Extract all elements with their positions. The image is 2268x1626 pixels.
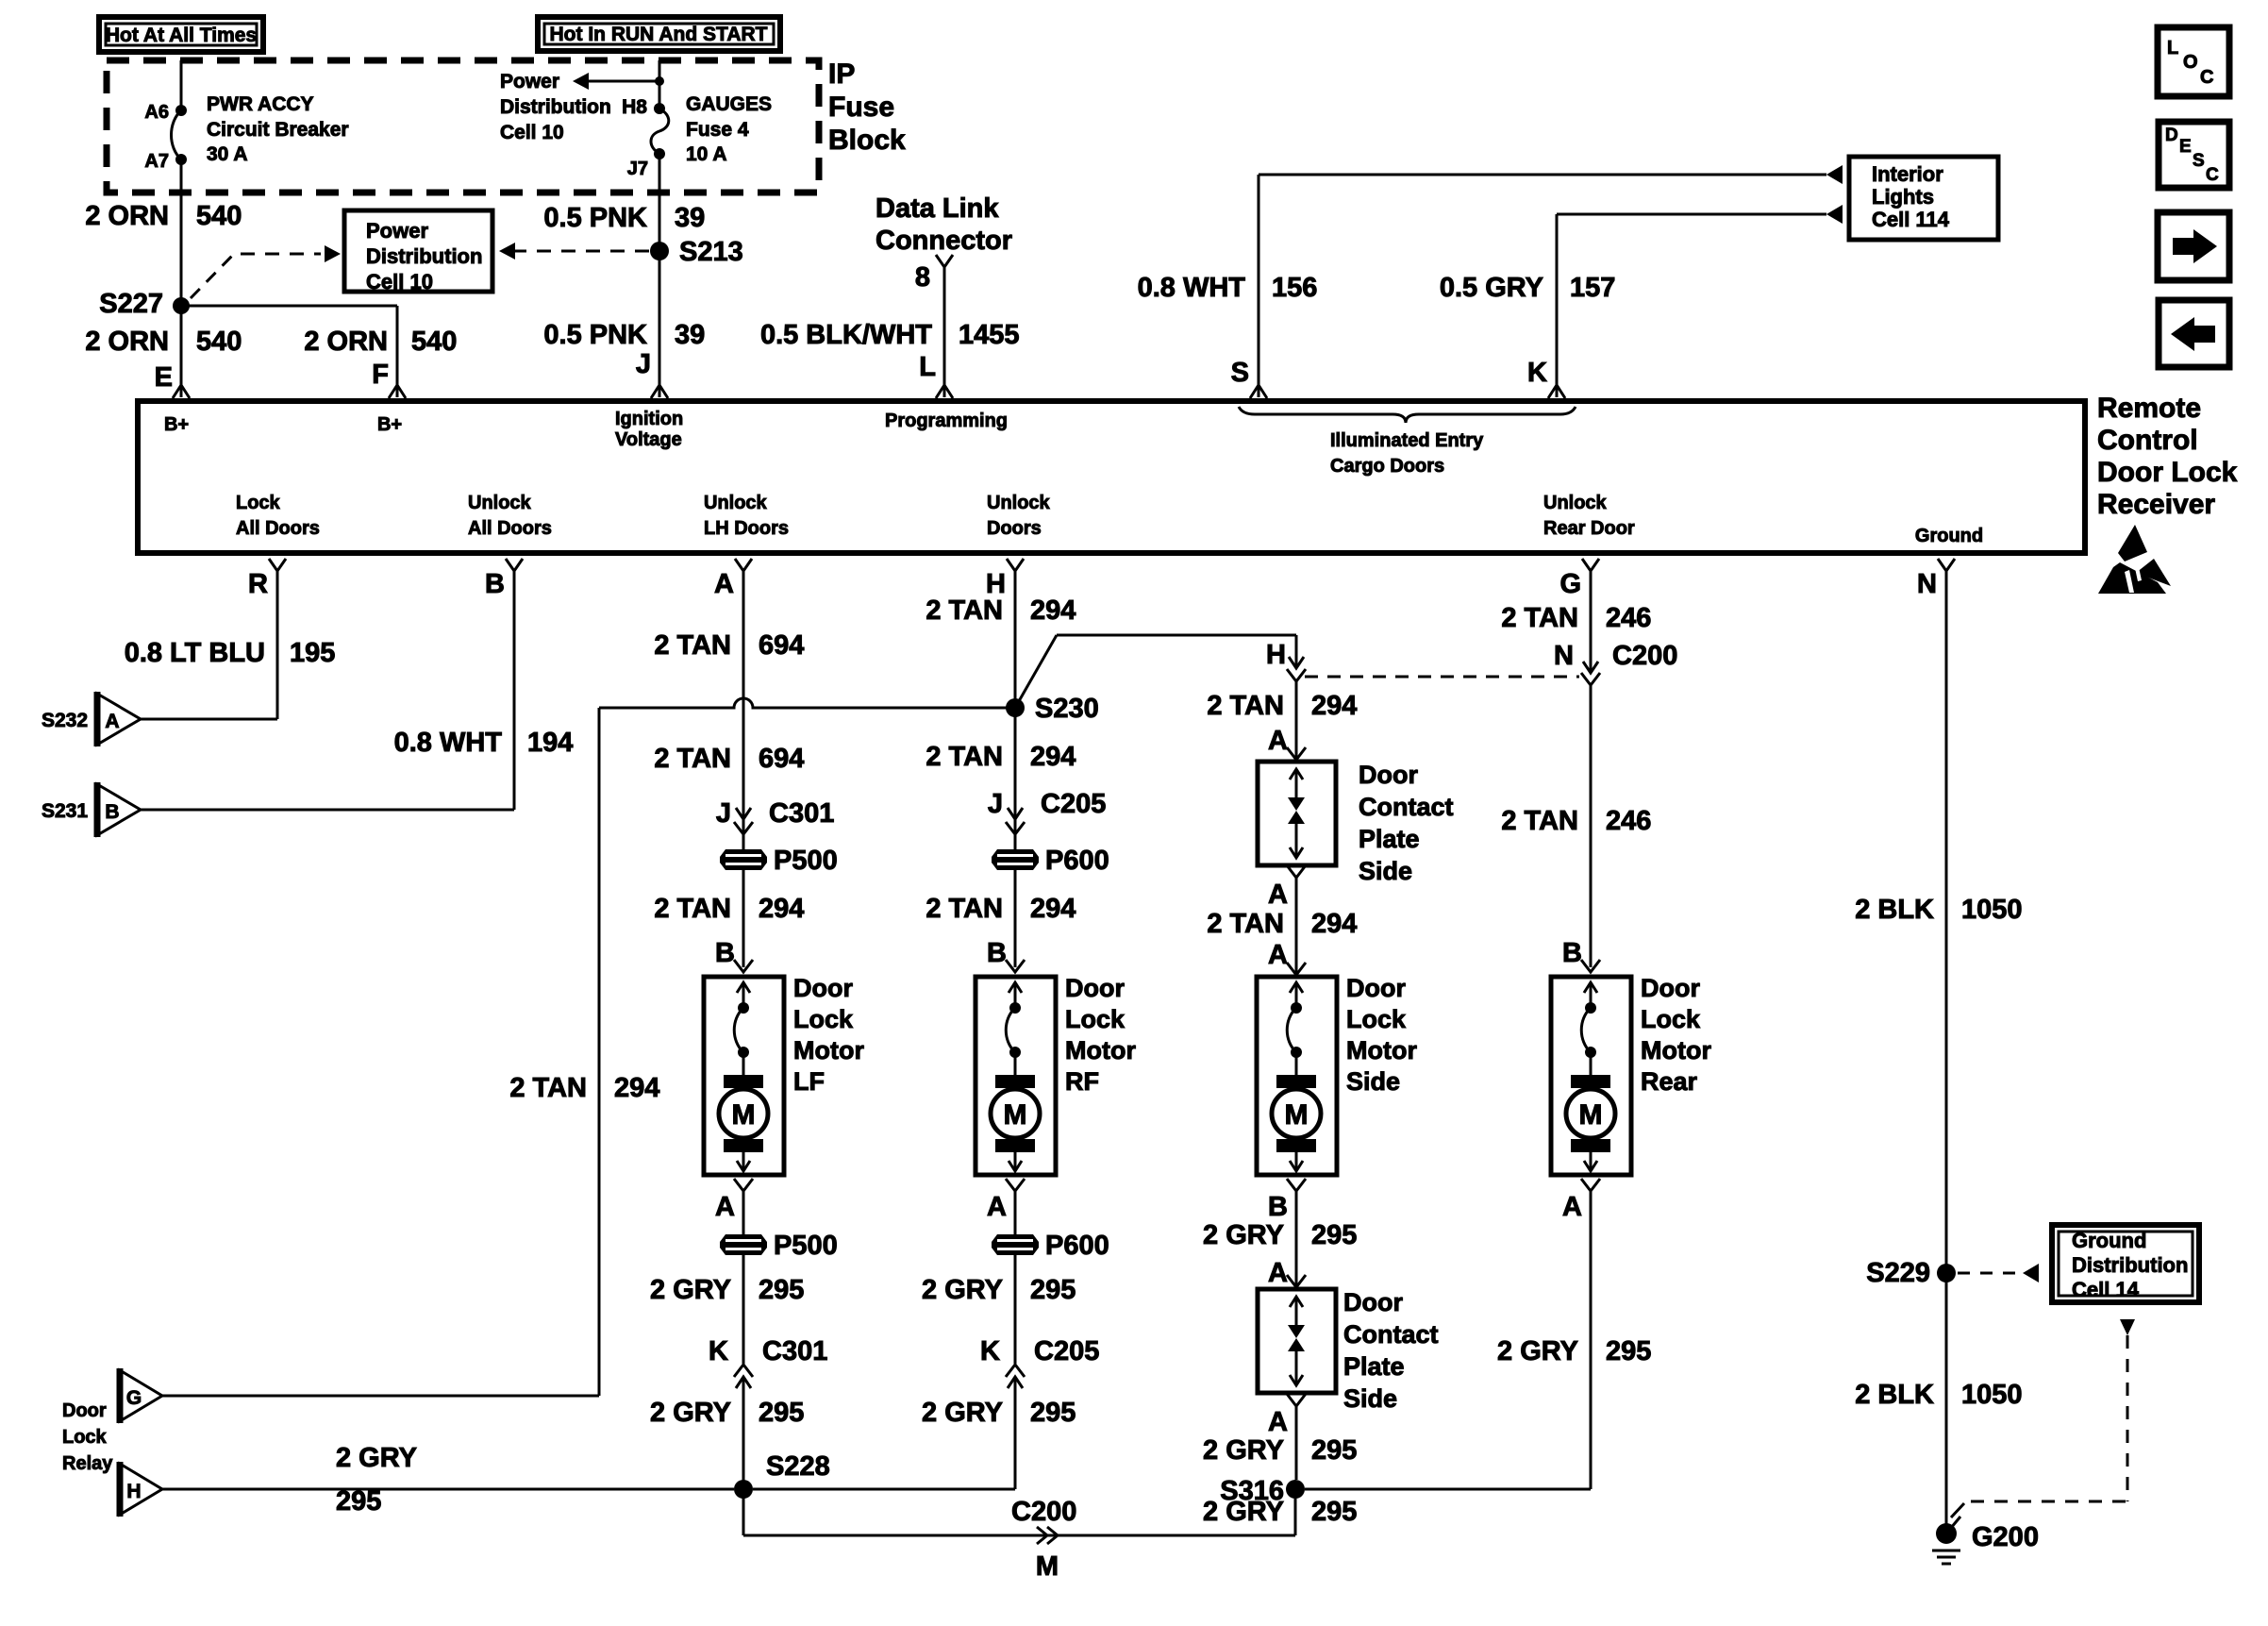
svg-text:Power: Power	[366, 219, 428, 243]
svg-text:294: 294	[1311, 909, 1357, 939]
svg-text:Rear Door: Rear Door	[1543, 518, 1635, 539]
svg-text:2 BLK: 2 BLK	[1855, 1380, 1934, 1410]
svg-text:Unlock: Unlock	[987, 493, 1051, 513]
svg-text:2 TAN: 2 TAN	[509, 1073, 587, 1103]
svg-text:K: K	[1527, 358, 1547, 388]
svg-text:Receiver: Receiver	[2097, 489, 2215, 520]
svg-text:LH Doors: LH Doors	[704, 518, 789, 539]
svg-text:0.5 BLK/WHT: 0.5 BLK/WHT	[760, 320, 932, 350]
svg-text:Door Lock: Door Lock	[2097, 457, 2238, 488]
svg-text:D: D	[2165, 126, 2178, 145]
svg-text:PWR ACCY: PWR ACCY	[207, 93, 314, 115]
svg-text:G: G	[1559, 569, 1581, 599]
svg-text:10 A: 10 A	[686, 143, 727, 165]
svg-text:S228: S228	[766, 1451, 830, 1482]
svg-text:Door: Door	[1065, 974, 1125, 1002]
svg-text:2 TAN: 2 TAN	[926, 742, 1003, 772]
svg-text:Fuse 4: Fuse 4	[686, 119, 749, 141]
svg-text:Illuminated Entry: Illuminated Entry	[1330, 430, 1484, 451]
svg-text:295: 295	[336, 1486, 381, 1517]
svg-text:295: 295	[1030, 1275, 1076, 1305]
svg-text:S: S	[1231, 358, 1249, 388]
svg-text:J: J	[988, 789, 1003, 819]
svg-text:E: E	[155, 362, 173, 393]
svg-text:194: 194	[527, 728, 573, 758]
svg-text:A: A	[1268, 1258, 1288, 1288]
svg-text:2 GRY: 2 GRY	[650, 1275, 731, 1305]
svg-text:Unlock: Unlock	[704, 493, 768, 513]
svg-text:295: 295	[1030, 1398, 1076, 1428]
svg-text:2 GRY: 2 GRY	[1203, 1497, 1284, 1527]
svg-text:S232: S232	[42, 710, 88, 731]
svg-text:Cell 14: Cell 14	[2072, 1278, 2140, 1301]
svg-text:Cell 10: Cell 10	[500, 122, 564, 143]
svg-text:M: M	[1004, 1099, 1027, 1131]
svg-text:R: R	[248, 569, 268, 599]
svg-text:294: 294	[759, 894, 804, 924]
svg-text:2 GRY: 2 GRY	[922, 1275, 1003, 1305]
svg-text:0.8 LT BLU: 0.8 LT BLU	[125, 638, 265, 668]
svg-text:A: A	[1268, 940, 1288, 970]
svg-text:H8: H8	[622, 96, 647, 118]
svg-text:295: 295	[1311, 1435, 1357, 1466]
svg-text:O: O	[2183, 52, 2198, 73]
svg-text:Cell 114: Cell 114	[1872, 208, 1950, 231]
svg-text:2 GRY: 2 GRY	[650, 1398, 731, 1428]
svg-text:Door: Door	[1346, 974, 1406, 1002]
svg-text:39: 39	[675, 320, 705, 350]
svg-text:Lock: Lock	[1065, 1005, 1126, 1033]
svg-text:P600: P600	[1045, 1231, 1109, 1261]
svg-text:M: M	[732, 1099, 756, 1131]
svg-text:C301: C301	[769, 798, 834, 829]
svg-text:B: B	[715, 938, 735, 968]
svg-text:2 TAN: 2 TAN	[926, 595, 1003, 626]
svg-text:156: 156	[1272, 273, 1317, 303]
svg-text:2 TAN: 2 TAN	[654, 744, 731, 774]
svg-text:C200: C200	[1612, 641, 1677, 671]
svg-text:A: A	[1562, 1192, 1582, 1222]
svg-text:295: 295	[1311, 1220, 1357, 1250]
svg-text:Relay: Relay	[62, 1453, 113, 1474]
svg-text:Connector: Connector	[876, 226, 1012, 256]
svg-text:0.8 WHT: 0.8 WHT	[394, 728, 503, 758]
svg-text:A6: A6	[144, 102, 169, 123]
svg-text:2 GRY: 2 GRY	[1203, 1220, 1284, 1250]
svg-text:Power: Power	[500, 71, 559, 92]
svg-text:K: K	[709, 1336, 728, 1366]
svg-text:Door: Door	[62, 1400, 107, 1421]
svg-text:Lock: Lock	[1641, 1005, 1701, 1033]
svg-text:30 A: 30 A	[207, 143, 248, 165]
svg-text:C205: C205	[1041, 789, 1106, 819]
svg-text:C301: C301	[762, 1336, 827, 1366]
svg-text:A: A	[1268, 726, 1288, 756]
svg-text:S229: S229	[1866, 1258, 1930, 1288]
svg-text:Cell 10: Cell 10	[366, 270, 433, 293]
svg-text:S227: S227	[99, 289, 163, 319]
svg-text:8: 8	[915, 262, 930, 293]
svg-text:Unlock: Unlock	[1543, 493, 1608, 513]
svg-text:Ground: Ground	[1915, 526, 1983, 546]
svg-text:39: 39	[675, 203, 705, 233]
svg-text:P500: P500	[774, 846, 838, 876]
svg-text:2 TAN: 2 TAN	[1501, 603, 1578, 633]
svg-text:Door: Door	[1343, 1288, 1403, 1316]
svg-text:A: A	[987, 1192, 1007, 1222]
svg-text:Door: Door	[793, 974, 853, 1002]
svg-text:246: 246	[1606, 806, 1651, 836]
svg-text:P600: P600	[1045, 846, 1109, 876]
svg-text:Motor: Motor	[1065, 1036, 1136, 1064]
svg-text:294: 294	[614, 1073, 659, 1103]
svg-text:2 ORN: 2 ORN	[85, 327, 169, 357]
svg-text:195: 195	[290, 638, 335, 668]
svg-text:2 GRY: 2 GRY	[336, 1443, 417, 1473]
svg-text:A: A	[714, 569, 734, 599]
svg-text:540: 540	[196, 327, 242, 357]
svg-text:2 TAN: 2 TAN	[926, 894, 1003, 924]
svg-text:Unlock: Unlock	[468, 493, 532, 513]
svg-text:K: K	[980, 1336, 1000, 1366]
svg-text:H: H	[1266, 640, 1286, 670]
svg-text:294: 294	[1311, 691, 1357, 721]
svg-text:295: 295	[1606, 1336, 1651, 1366]
svg-text:A: A	[715, 1192, 735, 1222]
svg-text:Door: Door	[1359, 761, 1418, 789]
svg-text:Doors: Doors	[987, 518, 1042, 539]
svg-text:0.5 GRY: 0.5 GRY	[1440, 273, 1543, 303]
svg-text:2 TAN: 2 TAN	[654, 630, 731, 661]
svg-text:Door: Door	[1641, 974, 1700, 1002]
svg-text:B+: B+	[164, 414, 189, 435]
svg-text:H: H	[126, 1481, 141, 1502]
svg-text:Data Link: Data Link	[876, 193, 999, 224]
svg-text:B+: B+	[377, 414, 402, 435]
svg-text:Contact: Contact	[1343, 1320, 1439, 1349]
svg-text:694: 694	[759, 744, 804, 774]
svg-text:C: C	[2200, 67, 2213, 88]
svg-text:Ground: Ground	[2072, 1229, 2146, 1252]
svg-text:0.5 PNK: 0.5 PNK	[543, 320, 647, 350]
svg-text:540: 540	[411, 327, 457, 357]
svg-text:2 TAN: 2 TAN	[654, 894, 731, 924]
svg-text:J: J	[716, 798, 731, 829]
svg-text:2 TAN: 2 TAN	[1501, 806, 1578, 836]
svg-text:Lock: Lock	[236, 493, 281, 513]
svg-text:IP: IP	[828, 59, 855, 90]
svg-text:M: M	[1036, 1551, 1059, 1582]
svg-text:C: C	[2206, 165, 2219, 185]
svg-text:Contact: Contact	[1359, 793, 1454, 821]
svg-text:0.5 PNK: 0.5 PNK	[543, 203, 647, 233]
svg-text:GAUGES: GAUGES	[686, 93, 772, 115]
svg-text:L: L	[919, 352, 936, 382]
svg-text:Control: Control	[2097, 425, 2198, 456]
svg-text:C200: C200	[1011, 1497, 1076, 1527]
svg-text:Motor: Motor	[1346, 1036, 1417, 1064]
svg-text:B: B	[105, 801, 119, 823]
svg-text:294: 294	[1030, 595, 1076, 626]
svg-text:Lock: Lock	[1346, 1005, 1407, 1033]
svg-text:Distribution: Distribution	[2072, 1253, 2188, 1277]
svg-text:2 GRY: 2 GRY	[922, 1398, 1003, 1428]
svg-text:246: 246	[1606, 603, 1651, 633]
svg-text:Circuit Breaker: Circuit Breaker	[207, 119, 349, 141]
svg-text:Cargo Doors: Cargo Doors	[1330, 456, 1444, 477]
svg-text:295: 295	[1311, 1497, 1357, 1527]
svg-text:C205: C205	[1034, 1336, 1099, 1366]
svg-text:N: N	[1554, 641, 1574, 671]
svg-text:Hot In RUN And START: Hot In RUN And START	[550, 24, 768, 45]
svg-text:Programming: Programming	[885, 411, 1008, 431]
svg-text:Lock: Lock	[62, 1427, 108, 1448]
svg-text:B: B	[987, 938, 1007, 968]
svg-text:A: A	[1268, 1407, 1288, 1437]
svg-text:L: L	[2167, 38, 2178, 59]
svg-text:Interior: Interior	[1872, 162, 1943, 186]
svg-text:Side: Side	[1346, 1067, 1400, 1096]
svg-text:A: A	[105, 711, 119, 732]
svg-text:S: S	[2193, 151, 2205, 171]
svg-text:P500: P500	[774, 1231, 838, 1261]
svg-text:Distribution: Distribution	[366, 244, 482, 268]
svg-text:2 TAN: 2 TAN	[1207, 691, 1284, 721]
svg-text:Plate: Plate	[1359, 825, 1420, 853]
svg-text:Ignition: Ignition	[615, 409, 683, 429]
svg-text:2 ORN: 2 ORN	[304, 327, 388, 357]
svg-text:S230: S230	[1035, 694, 1099, 724]
svg-text:294: 294	[1030, 894, 1076, 924]
svg-text:B: B	[1268, 1192, 1288, 1222]
svg-text:540: 540	[196, 201, 242, 231]
svg-text:2 GRY: 2 GRY	[1497, 1336, 1578, 1366]
svg-text:F: F	[372, 360, 389, 390]
svg-text:G200: G200	[1972, 1522, 2039, 1552]
svg-text:B: B	[1562, 938, 1582, 968]
svg-text:S213: S213	[679, 237, 743, 267]
svg-text:1050: 1050	[1961, 1380, 2023, 1410]
svg-text:B: B	[485, 569, 505, 599]
svg-text:Hot At All Times: Hot At All Times	[106, 25, 257, 46]
svg-text:Rear: Rear	[1641, 1067, 1698, 1096]
svg-text:E: E	[2179, 137, 2192, 157]
svg-text:N: N	[1917, 569, 1937, 599]
svg-text:M: M	[1285, 1099, 1309, 1131]
svg-text:2 GRY: 2 GRY	[1203, 1435, 1284, 1466]
svg-text:2 BLK: 2 BLK	[1855, 895, 1934, 925]
svg-text:295: 295	[759, 1275, 804, 1305]
svg-text:157: 157	[1570, 273, 1615, 303]
svg-text:Lights: Lights	[1872, 185, 1934, 209]
svg-text:Lock: Lock	[793, 1005, 854, 1033]
svg-text:J: J	[636, 349, 651, 379]
svg-text:Plate: Plate	[1343, 1352, 1405, 1381]
svg-text:Distribution: Distribution	[500, 96, 611, 118]
svg-text:2 ORN: 2 ORN	[85, 201, 169, 231]
svg-text:Remote: Remote	[2097, 393, 2201, 424]
svg-text:A7: A7	[144, 151, 169, 172]
svg-text:294: 294	[1030, 742, 1076, 772]
svg-text:Motor: Motor	[1641, 1036, 1711, 1064]
svg-text:All Doors: All Doors	[236, 518, 320, 539]
svg-text:Motor: Motor	[793, 1036, 864, 1064]
svg-text:S231: S231	[42, 800, 88, 822]
svg-text:295: 295	[759, 1398, 804, 1428]
svg-text:0.8 WHT: 0.8 WHT	[1138, 273, 1246, 303]
svg-text:M: M	[1579, 1099, 1603, 1131]
svg-text:Fuse: Fuse	[828, 92, 894, 123]
svg-text:All Doors: All Doors	[468, 518, 552, 539]
svg-text:Voltage: Voltage	[615, 429, 682, 450]
svg-text:Block: Block	[828, 125, 906, 156]
svg-text:Side: Side	[1343, 1384, 1397, 1413]
svg-text:1050: 1050	[1961, 895, 2023, 925]
svg-text:1455: 1455	[959, 320, 1020, 350]
svg-text:2 TAN: 2 TAN	[1207, 909, 1284, 939]
svg-text:J7: J7	[627, 159, 648, 179]
svg-text:G: G	[126, 1387, 142, 1409]
svg-text:694: 694	[759, 630, 804, 661]
svg-text:RF: RF	[1065, 1067, 1099, 1096]
svg-text:A: A	[1268, 880, 1288, 910]
svg-text:Side: Side	[1359, 857, 1412, 885]
svg-text:LF: LF	[793, 1067, 825, 1096]
